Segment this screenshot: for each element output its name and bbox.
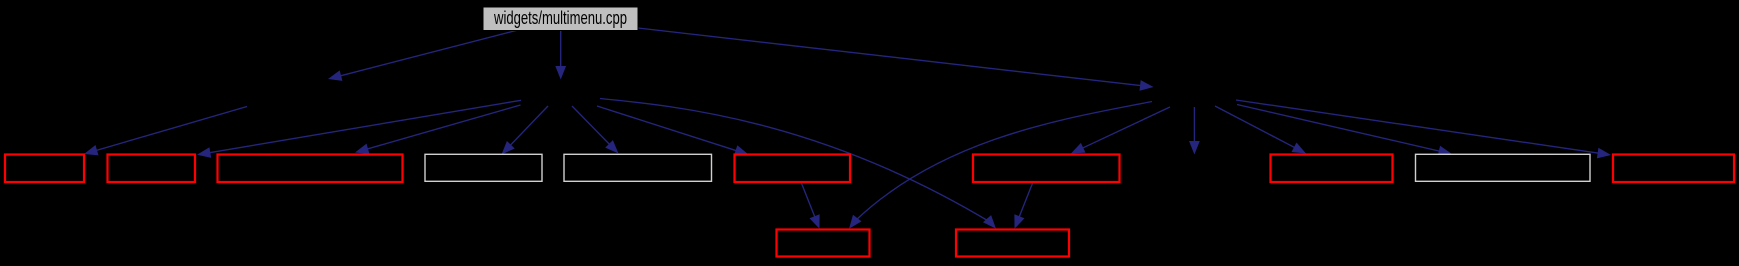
svg-text:widgets/multimenu.cpp: widgets/multimenu.cpp: [493, 8, 627, 28]
